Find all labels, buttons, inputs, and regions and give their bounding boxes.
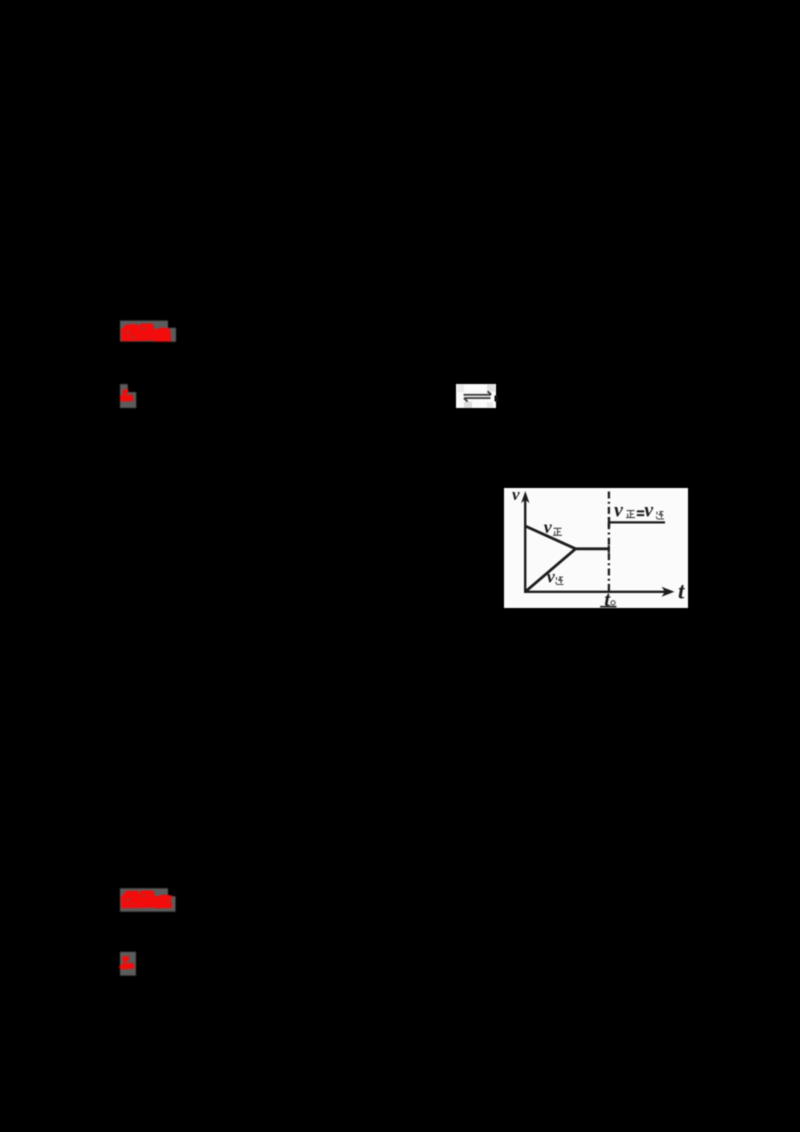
svg-text:t: t	[678, 578, 685, 603]
svg-text:v: v	[644, 500, 654, 522]
svg-text:v: v	[544, 517, 553, 537]
svg-text:v: v	[512, 488, 520, 504]
svg-text:v: v	[547, 566, 556, 586]
svg-text:v: v	[614, 500, 624, 522]
